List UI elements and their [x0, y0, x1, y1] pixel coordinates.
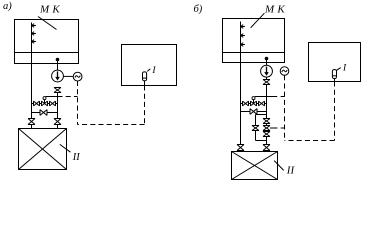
bypass valve (b)	[252, 126, 259, 131]
row1 pipe seg1 (a)	[32, 103, 34, 105]
valve row2 (b)	[250, 109, 257, 115]
row1 pipe seg4 (b)	[265, 103, 267, 105]
MK box internal line (b)	[223, 52, 285, 54]
return pipe upper (a)	[57, 60, 59, 71]
valve to II left (b)	[237, 145, 244, 151]
sensor stem (b)	[334, 79, 336, 82]
stub dashed Vb (b)	[273, 127, 285, 129]
loop left upper (b)	[255, 115, 257, 126]
row2 pipe seg2 (b)	[257, 111, 267, 113]
heat exchanger box II (b)	[232, 152, 278, 180]
heating coil and supply pipe (a)	[31, 23, 33, 119]
impulse line riser (b)	[284, 75, 286, 140]
valve actuator (a)	[43, 97, 46, 104]
return pipe lower (a)	[57, 93, 59, 119]
room box I (a)	[122, 45, 177, 86]
return pipe upper (b)	[266, 59, 268, 66]
sensor capsule (b)	[332, 70, 336, 79]
sensor tick (b)	[337, 68, 341, 71]
control line solid (a)	[46, 96, 58, 98]
box II diagonal 2 (b)	[232, 152, 278, 180]
valve actuator (b)	[252, 97, 255, 104]
row1 pipe seg1 (b)	[241, 103, 243, 105]
stub solid Vb (b)	[270, 127, 273, 129]
control valve row1-2 (a)	[42, 101, 48, 106]
stack pipe 3 (b)	[266, 137, 268, 145]
motor M1 (a)	[73, 72, 82, 81]
stack valve Vd (b)	[263, 145, 270, 151]
leader line MK (a)	[38, 17, 57, 30]
row1 pipe seg3 (b)	[257, 103, 259, 105]
valve row2 (a)	[40, 110, 47, 116]
valve to II left (a)	[28, 119, 35, 125]
junction dot (b)	[265, 57, 269, 61]
svg-text:I: I	[342, 63, 347, 73]
MK box internal line (a)	[15, 52, 79, 54]
junction dot (a)	[56, 58, 60, 62]
valve row1-3 (a)	[50, 101, 56, 106]
valve row1-1 (b)	[243, 101, 249, 106]
row1 pipe seg2 (a)	[40, 103, 42, 105]
coil flow arrow 2 (b)	[241, 34, 245, 38]
pipe into II left (b)	[240, 151, 242, 152]
loop bottom line (b)	[256, 140, 267, 142]
row1 pipe seg3 (a)	[48, 103, 50, 105]
row2 pipe seg1 (b)	[241, 111, 251, 113]
leader line MK (b)	[251, 13, 265, 28]
valve below pump (a)	[54, 88, 61, 93]
coil flow arrow 1 (a)	[32, 24, 36, 28]
stack valve Vb (b)	[263, 126, 270, 131]
impulse line bottom (a)	[78, 124, 145, 126]
valve row1-3 (b)	[259, 101, 265, 106]
valve row1-1 (a)	[34, 101, 40, 106]
row1 pipe seg2 (b)	[249, 103, 251, 105]
pipe into II right (b)	[266, 151, 268, 152]
impulse line from sensor (b)	[334, 82, 336, 141]
loop left lower (b)	[255, 131, 257, 141]
control valve row1-2 (b)	[251, 101, 257, 106]
coil flow arrow 1 (b)	[241, 25, 245, 29]
row2 pipe seg1 (a)	[32, 112, 41, 114]
pipe into II left (a)	[31, 125, 33, 129]
coil flow arrow 2 (a)	[32, 32, 36, 36]
svg-text:а): а)	[3, 1, 12, 12]
valve to II right (a)	[54, 119, 61, 125]
heat exchanger box II (a)	[19, 129, 67, 170]
air handler MK box (a)	[15, 20, 79, 64]
coil flow arrow 3 (b)	[241, 43, 245, 47]
svg-text:II: II	[286, 164, 296, 176]
stack pipe 2 (b)	[266, 131, 268, 132]
svg-text:МК: МК	[264, 3, 285, 15]
pipe into II right (a)	[57, 125, 59, 129]
control line dashed (a)	[58, 96, 78, 98]
return pipe lower (b)	[266, 85, 268, 119]
control line solid (b)	[255, 96, 277, 98]
pump P1 (a)	[52, 70, 64, 82]
motor M1 (b)	[280, 67, 289, 76]
control line dash seg (b)	[281, 96, 285, 98]
valve below pump (b)	[263, 80, 270, 85]
row1 pipe seg4 (a)	[56, 103, 58, 105]
air handler MK box (b)	[223, 19, 285, 63]
impulse line from sensor (a)	[144, 86, 146, 125]
stack valve Va (b)	[263, 119, 270, 124]
coil flow arrow 3 (a)	[32, 40, 36, 44]
box II diagonal 2 (a)	[19, 129, 67, 170]
svg-text:II: II	[72, 152, 80, 163]
pipe pump to valve (b)	[266, 77, 268, 79]
row2 pipe seg2 (a)	[47, 112, 58, 114]
sensor capsule (a)	[143, 72, 147, 81]
loop top line (b)	[256, 114, 267, 116]
pump-motor link (a)	[63, 75, 73, 77]
box II diagonal 1 (a)	[19, 129, 67, 170]
room box I (b)	[309, 43, 361, 82]
impulse line bottom (b)	[285, 140, 335, 142]
leader line II (b)	[274, 161, 284, 171]
svg-text:I: I	[151, 66, 156, 76]
sensor tick (a)	[147, 69, 150, 72]
svg-text:МК: МК	[39, 3, 60, 15]
impulse line riser (a)	[77, 81, 79, 125]
stack valve Vc (b)	[263, 132, 270, 137]
stack pipe 1 (b)	[266, 124, 268, 126]
sensor stem (a)	[144, 81, 146, 86]
heating coil and supply pipe (b)	[240, 22, 242, 145]
pump P1 (b)	[261, 65, 273, 77]
svg-text:б): б)	[194, 4, 203, 15]
leader line II (a)	[60, 144, 71, 152]
box II diagonal 1 (b)	[232, 152, 278, 180]
